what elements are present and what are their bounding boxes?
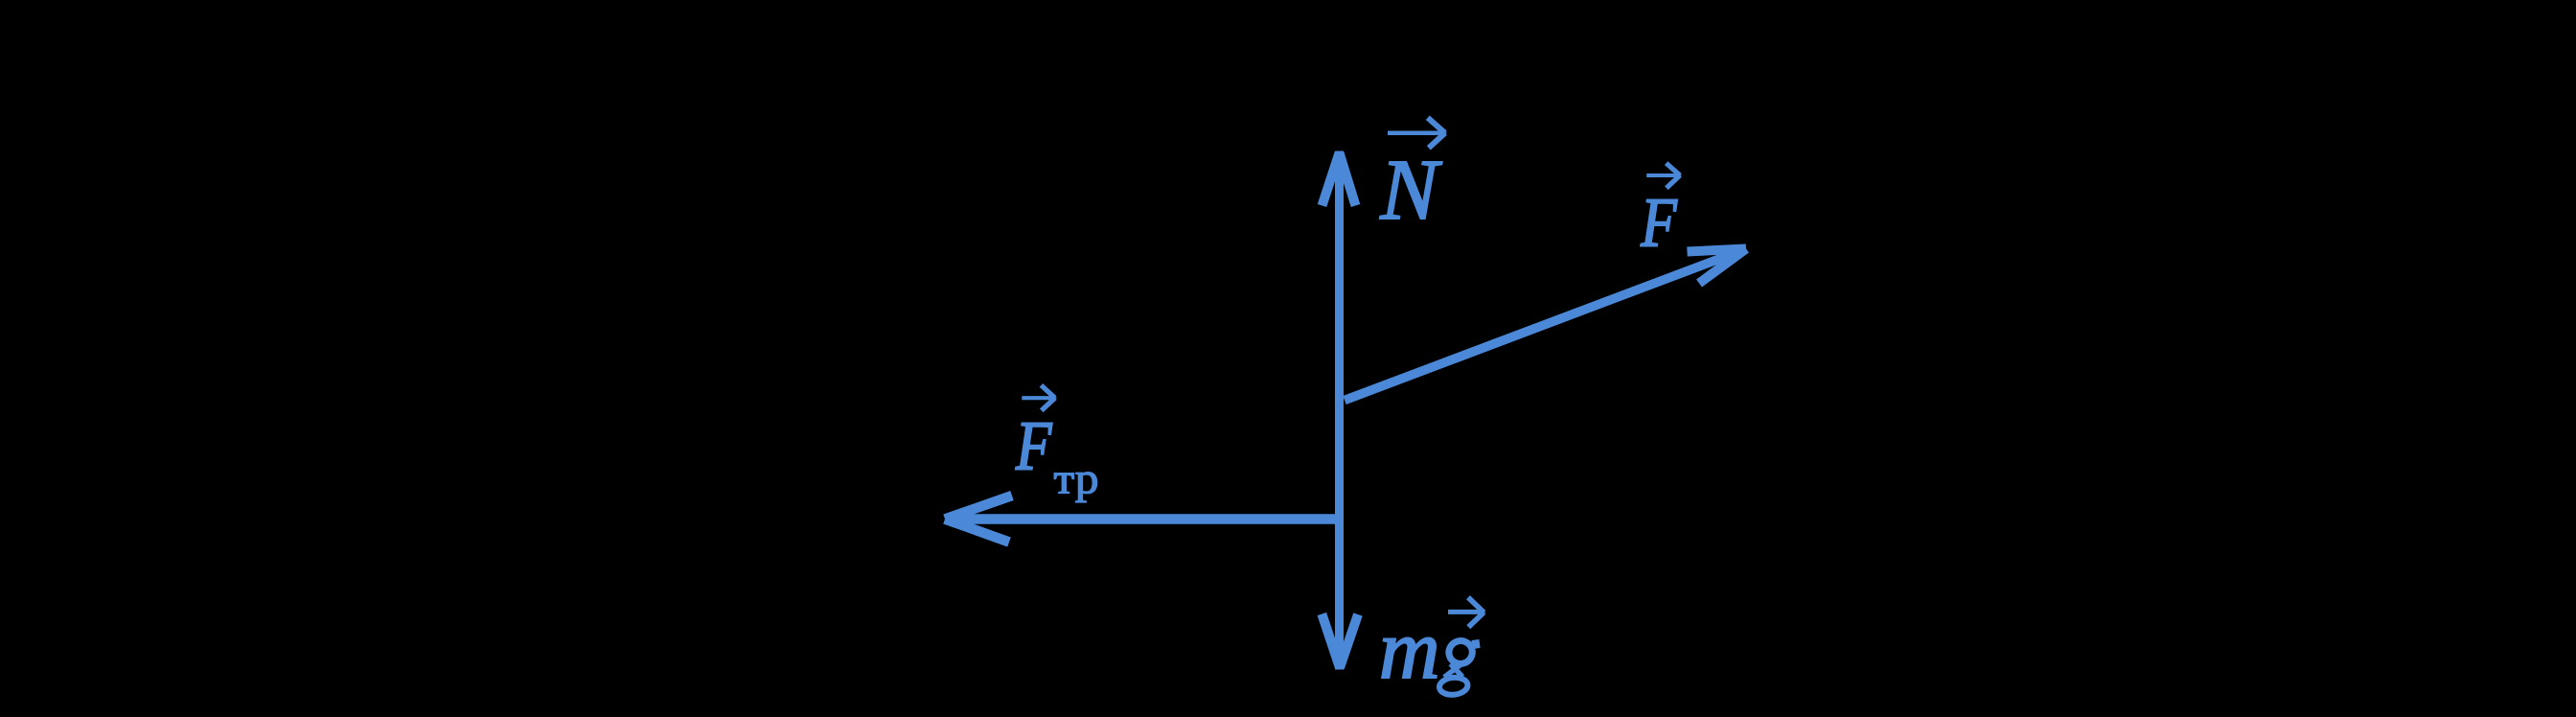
vector N arrowhead: [1322, 153, 1356, 206]
label F: [1640, 184, 1677, 262]
vector F_tr shaft (friction, pointing left): [947, 514, 1344, 524]
label F_tr subscript тр: [1054, 454, 1099, 503]
svg-text:N: N: [1380, 143, 1443, 238]
svg-text:F: F: [1640, 184, 1677, 262]
label N vector arrow: [1388, 118, 1447, 149]
svg-text:m: m: [1379, 604, 1440, 697]
vector F_tr arrowhead: [945, 496, 1012, 543]
label F_tr vector arrow: [1022, 385, 1057, 410]
vector F shaft (applied force, up-right): [1345, 250, 1742, 401]
label mg vector arrow (over g): [1448, 597, 1486, 627]
svg-text:тр: тр: [1054, 454, 1099, 503]
vector F arrowhead: [1688, 249, 1747, 284]
vector N shaft (vertical line through origin, shared with mg): [1335, 151, 1344, 670]
label N: [1380, 143, 1443, 238]
svg-text:F: F: [1015, 406, 1052, 484]
vector mg arrowhead: [1322, 614, 1358, 668]
label F_tr (F): [1015, 406, 1052, 484]
label mg: m: [1379, 604, 1440, 697]
label F vector arrow: [1646, 163, 1682, 188]
label mg: g (drawn, closed-loop serif italic g): [1438, 637, 1480, 696]
